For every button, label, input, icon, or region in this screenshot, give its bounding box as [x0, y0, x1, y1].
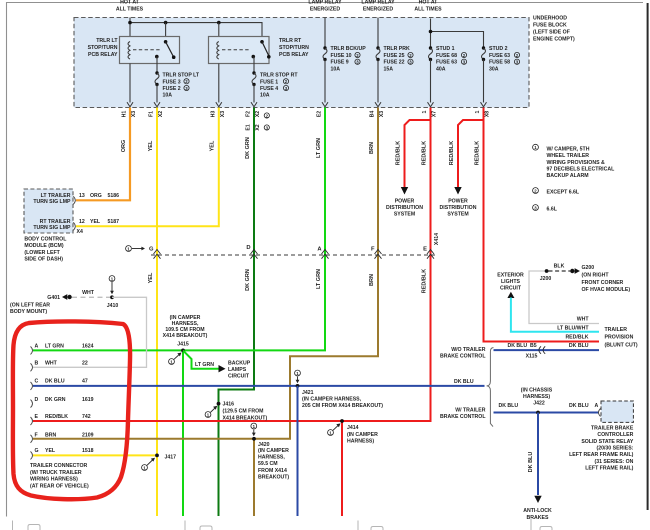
svg-text:FUSE 63: FUSE 63	[436, 60, 457, 66]
rotated wire labels above X414	[121, 137, 481, 165]
svg-text:OF HVAC MODULE): OF HVAC MODULE)	[582, 287, 631, 293]
svg-text:HOT AT: HOT AT	[120, 0, 140, 6]
wire supply feed into relay bus	[129, 18, 131, 42]
svg-text:FUSE 63: FUSE 63	[489, 53, 510, 59]
svg-text:BACKUP: BACKUP	[228, 361, 251, 367]
svg-text:W/O TRAILER: W/O TRAILER	[451, 347, 486, 353]
svg-text:SYSTEM: SYSTEM	[394, 211, 415, 217]
wire LT GRN backup branch	[183, 350, 219, 368]
wire relay1 coil output	[129, 64, 131, 103]
svg-text:J417: J417	[165, 454, 177, 460]
svg-text:RED/BLK: RED/BLK	[421, 141, 427, 165]
svg-text:H3: H3	[211, 111, 217, 118]
svg-text:ENGINE COMPT): ENGINE COMPT)	[533, 37, 575, 43]
svg-text:G: G	[35, 448, 39, 454]
svg-text:BRN: BRN	[369, 274, 375, 286]
wire RED/BLK J414 to bottom	[341, 421, 343, 516]
svg-text:DK BLU: DK BLU	[569, 403, 589, 409]
footnote 1 marker at J421	[295, 370, 301, 383]
wire STUD feed bus	[430, 19, 432, 49]
wire LT BLU/WHT to trailer provision	[511, 298, 599, 332]
X414 pin letters	[149, 245, 427, 253]
BCM pin 13 connector	[73, 196, 75, 204]
svg-text:(ON LEFT REAR: (ON LEFT REAR	[10, 302, 50, 308]
svg-text:40A: 40A	[436, 66, 446, 72]
svg-text:(W/ TRUCK TRAILER: (W/ TRUCK TRAILER	[30, 470, 82, 476]
fuse TRLR PRK	[376, 46, 380, 61]
svg-text:J415: J415	[177, 341, 189, 347]
relay K2 TRLR RT STOP/TURN PCB RELAY	[209, 37, 271, 64]
svg-text:TURN SIG LMP: TURN SIG LMP	[33, 199, 71, 205]
footnote 2 note	[533, 188, 539, 194]
svg-text:(LEFT SIDE OF: (LEFT SIDE OF	[533, 30, 570, 36]
svg-text:205 CM FROM X414 BREAKOUT): 205 CM FROM X414 BREAKOUT)	[302, 403, 383, 409]
svg-text:X414: X414	[434, 233, 440, 245]
wire fuse to pin F1	[156, 85, 158, 103]
svg-text:ALL TIMES: ALL TIMES	[116, 7, 144, 13]
svg-text:J410: J410	[107, 303, 119, 309]
svg-text:F2: F2	[246, 111, 252, 117]
svg-text:E: E	[35, 414, 39, 420]
wire relay2 coil output	[218, 64, 220, 103]
svg-text:J421: J421	[302, 390, 314, 396]
rotated wire labels below X414	[148, 269, 427, 293]
svg-text:STOP/TURN: STOP/TURN	[88, 45, 118, 51]
svg-text:(IN CAMPER HARNESS,: (IN CAMPER HARNESS,	[302, 397, 362, 403]
svg-text:LT GRN: LT GRN	[45, 344, 64, 350]
svg-text:J200: J200	[540, 276, 552, 282]
wire BRN J420 to bottom	[253, 439, 255, 516]
svg-text:X8: X8	[485, 111, 491, 117]
underhood fuse block box	[74, 18, 529, 108]
relay K1 TRLR LT STOP/TURN PCB RELAY	[120, 37, 180, 64]
svg-text:FUSE 10: FUSE 10	[331, 53, 352, 59]
X414 connector chevrons	[154, 250, 435, 259]
svg-text:BRN: BRN	[369, 142, 375, 154]
svg-text:X4: X4	[77, 229, 83, 235]
svg-text:X414 BREAKOUT): X414 BREAKOUT)	[223, 416, 268, 422]
svg-text:5187: 5187	[108, 219, 120, 225]
trailer connector pin chevrons	[31, 346, 33, 459]
svg-text:47: 47	[82, 379, 88, 385]
svg-text:2109: 2109	[82, 432, 94, 438]
wire ORG H1 to BCM pin 13	[76, 108, 130, 201]
node bus junction 2	[164, 21, 168, 25]
pin labels below fuse block	[122, 110, 491, 130]
svg-text:HARNESS): HARNESS)	[347, 438, 374, 444]
svg-text:FUSE 3: FUSE 3	[163, 79, 181, 85]
svg-text:TRLR RT: TRLR RT	[279, 38, 302, 44]
svg-text:(IN CAMPER: (IN CAMPER	[347, 432, 378, 438]
svg-text:TRAILER BRAKE: TRAILER BRAKE	[591, 425, 634, 431]
svg-text:PCB RELAY: PCB RELAY	[88, 52, 118, 58]
wire TRLR PRK feed	[377, 18, 379, 49]
svg-text:UNDERHOOD: UNDERHOOD	[533, 16, 567, 22]
svg-text:1: 1	[475, 110, 481, 113]
bottom faint next-section marks	[13, 518, 553, 530]
svg-text:MODULE (BCM): MODULE (BCM)	[24, 243, 63, 249]
svg-text:WHT: WHT	[577, 317, 590, 323]
svg-text:YEL: YEL	[45, 448, 56, 454]
svg-text:BACKUP ALARM: BACKUP ALARM	[547, 173, 589, 179]
svg-text:E: E	[423, 247, 427, 253]
svg-text:BODY CONTROL: BODY CONTROL	[24, 236, 67, 242]
svg-text:X2: X2	[158, 111, 164, 117]
svg-text:FUSE 68: FUSE 68	[436, 53, 457, 59]
svg-text:(31 SERIES: ON: (31 SERIES: ON	[594, 459, 633, 465]
wire LT GRN E2 down to X414 pin A and row A	[33, 108, 325, 351]
svg-text:RED/BLK: RED/BLK	[45, 414, 68, 420]
svg-text:EXTERIOR: EXTERIOR	[497, 273, 524, 279]
svg-text:DK BLU: DK BLU	[569, 343, 589, 349]
svg-text:HARNESS,: HARNESS,	[258, 454, 285, 460]
wire DK BLU J421 to bottom	[297, 386, 299, 516]
svg-text:10A: 10A	[163, 93, 173, 99]
svg-text:RED/BLK: RED/BLK	[421, 269, 427, 293]
svg-text:YEL: YEL	[148, 140, 154, 151]
svg-text:D: D	[246, 245, 250, 251]
svg-text:WIRING PROVISIONS &: WIRING PROVISIONS &	[547, 160, 605, 166]
svg-text:22: 22	[82, 361, 88, 367]
wire DK BLU row C to brace	[33, 385, 485, 387]
footnote 1 marker at J416	[205, 406, 217, 418]
svg-text:FUSE 22: FUSE 22	[384, 60, 405, 66]
svg-text:6.6L: 6.6L	[547, 207, 558, 213]
svg-text:DK BLU: DK BLU	[508, 343, 528, 349]
svg-text:TRLR STOP LT: TRLR STOP LT	[163, 73, 200, 79]
svg-text:TRAILER: TRAILER	[605, 327, 628, 333]
svg-text:X115: X115	[526, 354, 538, 360]
svg-text:WIRING HARNESS): WIRING HARNESS)	[30, 477, 78, 483]
svg-text:BREAKOUT): BREAKOUT)	[258, 475, 289, 481]
wire BRN row F from connector	[33, 438, 254, 440]
svg-text:DK GRN: DK GRN	[245, 137, 251, 159]
svg-text:SOLID STATE RELAY: SOLID STATE RELAY	[581, 439, 634, 445]
node J415	[181, 349, 185, 353]
svg-text:15A: 15A	[384, 66, 394, 72]
svg-text:F: F	[371, 247, 375, 253]
svg-text:DK BLU: DK BLU	[499, 403, 519, 409]
svg-text:5186: 5186	[108, 193, 120, 199]
wire fuse to pin E1	[253, 85, 255, 103]
svg-text:YEL: YEL	[210, 140, 216, 151]
svg-text:A: A	[35, 344, 39, 350]
red freehand circle	[13, 321, 130, 499]
svg-text:12: 12	[79, 219, 85, 225]
footnote 1 marker at J410	[109, 276, 115, 295]
svg-text:STUD 1: STUD 1	[436, 46, 455, 52]
fuse STUD 1	[429, 46, 433, 61]
node J417	[155, 454, 159, 458]
svg-text:RED/BLK: RED/BLK	[449, 141, 455, 165]
svg-text:FUSE 25: FUSE 25	[384, 53, 405, 59]
node J414	[340, 419, 344, 423]
svg-text:BRAKE CONTROL: BRAKE CONTROL	[440, 414, 486, 420]
footnote 1 marker at J417	[142, 458, 155, 471]
svg-text:D: D	[35, 397, 39, 403]
wire RED/BLK branch to power distribution 1	[405, 120, 431, 187]
svg-text:ENERGIZED: ENERGIZED	[310, 7, 341, 13]
svg-text:FUSE 2: FUSE 2	[163, 86, 181, 92]
svg-text:1: 1	[422, 110, 428, 113]
ground G200	[570, 268, 580, 274]
BCM box	[24, 189, 73, 233]
wire RED/BLK STUD2 down to trailer provision	[484, 108, 600, 342]
svg-text:TRLR LT: TRLR LT	[96, 38, 118, 44]
BCM pin 12 connector	[73, 222, 75, 230]
svg-text:TURN SIG LMP: TURN SIG LMP	[33, 225, 71, 231]
svg-text:742: 742	[82, 414, 91, 420]
wire YEL F1 down to X414 pin G and J417	[156, 108, 158, 456]
brace options split	[487, 348, 494, 427]
svg-text:SIDE OF DASH): SIDE OF DASH)	[24, 257, 63, 263]
wire WHT J410 to row B	[33, 297, 147, 367]
node J420	[252, 437, 256, 441]
svg-text:97 DECIBELS ELECTRICAL: 97 DECIBELS ELECTRICAL	[547, 166, 616, 172]
svg-text:(ON RIGHT: (ON RIGHT	[582, 273, 610, 279]
arrow exterior lights	[507, 292, 514, 298]
wire WHT J200 branch to trailer provision	[529, 271, 599, 324]
svg-text:POWER: POWER	[395, 198, 415, 204]
svg-text:H1: H1	[122, 111, 128, 118]
svg-text:X2: X2	[255, 124, 261, 130]
wire fuse PRK to pin B4	[377, 60, 379, 103]
svg-text:(20/30 SERIES:: (20/30 SERIES:	[596, 446, 633, 452]
svg-text:G200: G200	[582, 265, 595, 271]
arrow backup lamps	[219, 365, 226, 372]
wire YEL row G to J417	[33, 454, 157, 456]
arrow power distribution 2	[454, 187, 461, 195]
arrow anti-lock	[534, 496, 541, 503]
svg-text:LEFT REAR FRAME RAIL): LEFT REAR FRAME RAIL)	[569, 452, 634, 458]
svg-text:G: G	[149, 247, 154, 253]
svg-text:DISTRIBUTION: DISTRIBUTION	[440, 205, 477, 211]
svg-text:BRAKES: BRAKES	[527, 515, 549, 521]
svg-text:ORG: ORG	[90, 193, 102, 199]
svg-text:RED/BLK: RED/BLK	[395, 141, 401, 165]
svg-text:LAMP RELAY: LAMP RELAY	[308, 0, 342, 6]
svg-text:BRN: BRN	[45, 432, 56, 438]
svg-text:CIRCUIT: CIRCUIT	[228, 374, 250, 380]
svg-text:FROM X414: FROM X414	[258, 468, 287, 474]
svg-text:LAMP RELAY: LAMP RELAY	[361, 0, 395, 6]
wire DK BLU to X115	[494, 349, 600, 351]
svg-text:BLK: BLK	[554, 264, 565, 270]
svg-text:WHT: WHT	[45, 361, 58, 367]
svg-text:TRLR PRK: TRLR PRK	[384, 46, 410, 52]
svg-text:DK GRN: DK GRN	[245, 269, 251, 291]
svg-text:X7: X7	[432, 111, 438, 117]
svg-text:LT GRN: LT GRN	[316, 138, 322, 158]
wire WHT G401 to J410 (dashed)	[72, 296, 110, 298]
svg-text:A: A	[595, 403, 599, 409]
svg-text:FUSE 4: FUSE 4	[260, 86, 278, 92]
svg-text:X414 BREAKOUT): X414 BREAKOUT)	[163, 333, 208, 339]
svg-text:STOP/TURN: STOP/TURN	[279, 45, 309, 51]
svg-text:X3: X3	[131, 111, 137, 117]
svg-text:PROVISION: PROVISION	[605, 335, 634, 341]
svg-text:X3: X3	[379, 111, 385, 117]
svg-text:10A: 10A	[331, 66, 341, 72]
fuse TRLR STOP LT	[155, 71, 159, 86]
node J416	[217, 402, 221, 406]
svg-text:TRLR STOP RT: TRLR STOP RT	[260, 73, 298, 79]
ground G401	[62, 294, 72, 300]
footnote 1 marker at J420	[251, 423, 257, 436]
svg-text:LT GRN: LT GRN	[195, 362, 214, 368]
svg-text:TRAILER CONNECTOR: TRAILER CONNECTOR	[30, 463, 88, 469]
trailer brake controller box	[601, 401, 633, 422]
svg-text:EXCEPT 6.6L: EXCEPT 6.6L	[547, 190, 580, 196]
svg-text:FRONT CORNER: FRONT CORNER	[582, 280, 624, 286]
svg-text:(LOWER LEFT: (LOWER LEFT	[24, 250, 60, 256]
svg-text:13: 13	[79, 193, 85, 199]
svg-text:LT BLU/WHT: LT BLU/WHT	[557, 326, 589, 332]
svg-text:G401: G401	[47, 295, 60, 301]
wire relay bus	[130, 23, 262, 42]
svg-text:(IN CHASSIS: (IN CHASSIS	[521, 388, 553, 394]
svg-text:1624: 1624	[82, 344, 94, 350]
wire fuse STUD2 down	[483, 60, 485, 103]
svg-text:FUSE 1: FUSE 1	[260, 79, 278, 85]
svg-text:CONTROLLER: CONTROLLER	[597, 432, 633, 438]
svg-text:CIRCUIT: CIRCUIT	[500, 286, 522, 292]
footnote 1 marker at J414	[328, 423, 341, 435]
wire YEL J417 to bottom	[156, 455, 158, 516]
svg-text:10A: 10A	[260, 93, 270, 99]
pin arrows at fuse block bottom	[127, 102, 487, 107]
svg-text:DK BLU: DK BLU	[454, 379, 474, 385]
svg-text:J416: J416	[223, 401, 235, 407]
svg-text:RED/BLK: RED/BLK	[565, 335, 588, 341]
svg-text:ALL TIMES: ALL TIMES	[414, 7, 442, 13]
fuse TRLR STOP RT	[252, 71, 256, 86]
svg-text:B: B	[35, 361, 39, 367]
svg-text:DK BLU: DK BLU	[45, 379, 65, 385]
svg-text:30A: 30A	[489, 66, 499, 72]
connector X115 chevrons	[539, 346, 545, 353]
page border right	[647, 3, 649, 510]
svg-text:59.5 CM: 59.5 CM	[258, 461, 278, 467]
svg-text:ENERGIZED: ENERGIZED	[363, 7, 394, 13]
svg-text:ORG: ORG	[121, 140, 127, 153]
arrow power distribution 1	[401, 187, 408, 195]
wire TRLR BCK/UP feed	[324, 18, 326, 49]
wire DK BLU to J422 and TBC	[494, 412, 600, 414]
svg-text:FUSE 9: FUSE 9	[331, 60, 349, 66]
svg-text:POWER: POWER	[448, 198, 468, 204]
svg-text:LT GRN: LT GRN	[316, 269, 322, 289]
wire DK GRN J416 to bottom	[218, 404, 220, 516]
svg-text:B5: B5	[530, 343, 537, 349]
svg-text:BRAKE CONTROL: BRAKE CONTROL	[440, 354, 486, 360]
footnote 3 note	[533, 205, 539, 211]
footnote 1 marker at X414 pin G	[126, 246, 145, 252]
svg-text:WHT: WHT	[82, 290, 95, 296]
wire LT GRN J415 to bottom	[182, 350, 184, 516]
svg-text:DK GRN: DK GRN	[45, 397, 66, 403]
footnote 1 marker at J415	[169, 353, 182, 365]
fuse STUD 2	[482, 46, 486, 61]
svg-text:RED/BLK: RED/BLK	[474, 141, 480, 165]
TBC pin connector	[599, 409, 601, 417]
svg-text:LEFT FRAME RAIL): LEFT FRAME RAIL)	[585, 466, 633, 472]
svg-text:B4: B4	[370, 111, 376, 118]
svg-text:E1: E1	[246, 124, 252, 130]
svg-text:J414: J414	[347, 425, 359, 431]
svg-text:(129.5 CM FROM: (129.5 CM FROM	[223, 409, 264, 415]
node J421	[296, 384, 300, 388]
node bus junction 3	[217, 21, 221, 25]
svg-text:W/ CAMPER, 5TH: W/ CAMPER, 5TH	[547, 147, 590, 153]
wire relay1 switch feed	[165, 23, 167, 42]
svg-text:FUSE BLOCK: FUSE BLOCK	[533, 23, 567, 29]
node J422	[536, 411, 540, 415]
wire YEL H3 to BCM pin 12	[76, 108, 219, 227]
node J200	[545, 269, 549, 273]
wire RED/BLK STUD1 down to X414 pin E and row E	[33, 108, 431, 422]
svg-text:LIGHTS: LIGHTS	[501, 279, 521, 285]
svg-text:HARNESS): HARNESS)	[523, 394, 550, 400]
svg-text:LAMPS: LAMPS	[228, 367, 247, 373]
svg-text:C: C	[35, 379, 39, 385]
svg-text:STUD 2: STUD 2	[489, 46, 508, 52]
svg-text:X2: X2	[255, 111, 261, 117]
wire fuse BCK/UP to pin E2	[324, 60, 326, 103]
wire DK GRN E1 down to X414 pin D and J416	[219, 108, 255, 404]
node stud bus junction	[429, 30, 433, 34]
wire BRN B4 down to X414 pin F and J420	[254, 108, 378, 439]
svg-text:W/ TRAILER: W/ TRAILER	[455, 408, 486, 414]
X414 breakout dashed line	[151, 254, 435, 256]
svg-text:ANTI-LOCK: ANTI-LOCK	[523, 508, 552, 514]
svg-text:F: F	[35, 432, 38, 438]
svg-text:FUSE 58: FUSE 58	[489, 60, 510, 66]
svg-text:DK BLU: DK BLU	[528, 452, 534, 473]
svg-text:E2: E2	[317, 111, 323, 117]
svg-text:TRLR BCK/UP: TRLR BCK/UP	[331, 46, 367, 52]
svg-text:WHEEL TRAILER: WHEEL TRAILER	[547, 153, 590, 159]
svg-text:YEL: YEL	[148, 272, 154, 283]
wire BLK J200 to G200 (dashed)	[549, 270, 571, 272]
svg-text:HOT AT: HOT AT	[419, 0, 439, 6]
node J410	[110, 295, 114, 299]
svg-text:F1: F1	[149, 111, 155, 117]
svg-text:PCB RELAY: PCB RELAY	[279, 52, 309, 58]
wire DK BLU J422 down to anti-lock	[537, 413, 539, 496]
svg-text:X3: X3	[220, 111, 226, 117]
wire relay1 switch output to fuse	[156, 57, 158, 73]
svg-text:(IN CAMPER: (IN CAMPER	[258, 448, 289, 454]
svg-text:(AT REAR OF VEHICLE): (AT REAR OF VEHICLE)	[30, 484, 89, 490]
wire RED/BLK branch to power distribution 2	[458, 120, 484, 187]
svg-text:(BLUNT CUT): (BLUNT CUT)	[605, 343, 638, 349]
wire relay2 switch output to fuse	[253, 57, 255, 73]
svg-text:J420: J420	[258, 442, 270, 448]
fuse TRLR BCK/UP	[323, 46, 327, 61]
svg-text:YEL: YEL	[90, 219, 101, 225]
svg-text:SYSTEM: SYSTEM	[447, 211, 468, 217]
wire fuse STUD1 down	[430, 60, 432, 103]
svg-text:1619: 1619	[82, 397, 94, 403]
node bus junction 1	[128, 21, 132, 25]
svg-text:BODY MOUNT): BODY MOUNT)	[10, 309, 47, 315]
svg-text:J422: J422	[533, 401, 545, 407]
wire relay2 coil feed	[218, 23, 220, 42]
footnote 1 note	[533, 144, 539, 150]
svg-text:DISTRIBUTION: DISTRIBUTION	[386, 205, 423, 211]
svg-text:1518: 1518	[82, 448, 94, 454]
